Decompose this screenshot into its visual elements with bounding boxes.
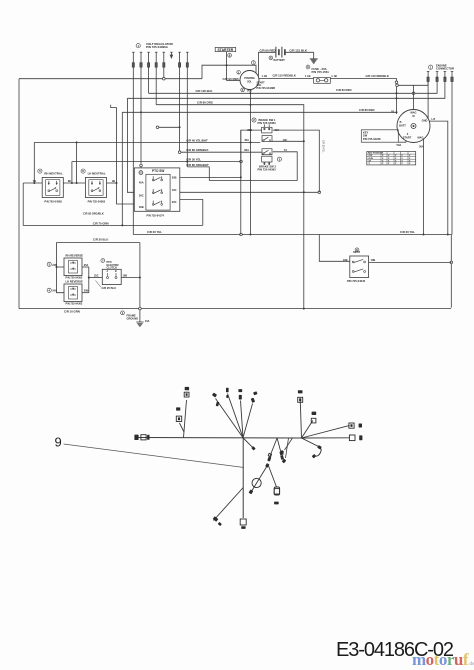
svg-text:STARTER: STARTER [218,48,234,52]
svg-text:C/R 30 YEL: C/R 30 YEL [186,157,201,161]
svg-text:4: 4 [48,288,50,292]
svg-text:24A: 24A [52,290,57,293]
svg-text:RH NEUTRAL: RH NEUTRAL [44,172,63,176]
svg-text:M: M [412,115,414,118]
svg-text:25C: 25C [94,274,99,277]
svg-text:9: 9 [55,435,62,450]
svg-text:5: 5 [39,169,41,173]
svg-text:20C: 20C [172,200,177,204]
svg-text:P/N 725-04363: P/N 725-04363 [258,167,277,171]
svg-text:1: 1 [137,44,139,48]
svg-text:7A: 7A [284,148,287,152]
svg-text:P/N 725-04174: P/N 725-04174 [147,214,165,218]
svg-text:C/R 40 YEL/BHT: C/R 40 YEL/BHT [186,138,208,142]
svg-text:P/N 725-04363: P/N 725-04363 [258,121,277,125]
svg-text:C/R 82 ORG/BLK: C/R 82 ORG/BLK [83,212,104,216]
svg-text:P/N 725-04439B: P/N 725-04439B [257,87,276,90]
svg-text:P/N 725-04096A: P/N 725-04096A [146,45,169,49]
svg-text:GROUND: GROUND [127,316,139,320]
svg-text:10B: 10B [371,258,376,262]
svg-text:40B: 40B [139,205,144,209]
svg-text:C/R 30 YEL: C/R 30 YEL [400,230,415,234]
svg-text:RH REVERSE: RH REVERSE [66,254,84,258]
svg-text:30B: 30B [172,175,177,179]
svg-text:1B: 1B [391,111,394,114]
svg-text:L/F: L/F [432,118,436,121]
svg-text:2: 2 [253,118,255,122]
svg-text:50C: 50C [139,193,144,197]
svg-text:9E: 9E [112,179,115,183]
svg-text:C/R 110 RED/BLK: C/R 110 RED/BLK [366,74,389,78]
svg-text:24B: 24B [52,264,57,267]
svg-text:30B: 30B [247,128,252,132]
svg-text:B: B [115,271,117,273]
svg-text:BATT: BATT [399,123,406,127]
svg-text:3: 3 [48,262,50,266]
svg-text:SOL: SOL [247,81,252,83]
svg-text:MAG: MAG [417,136,423,140]
svg-text:P/N 725-04363: P/N 725-04363 [66,277,83,280]
svg-text:C/R 20 BLU: C/R 20 BLU [93,237,108,241]
svg-text:SEAT: SEAT [353,250,360,254]
svg-text:10A: 10A [145,320,150,323]
svg-text:CONNECTOR: CONNECTOR [436,67,454,71]
svg-text:10C: 10C [172,188,177,192]
svg-text:P/N 725-1561: P/N 725-1561 [312,70,330,74]
svg-text:C/R 30 YEL: C/R 30 YEL [322,140,325,153]
svg-text:25A: 25A [84,264,89,267]
svg-text:10B: 10B [123,274,128,277]
svg-text:C/R 60 RED: C/R 60 RED [336,88,351,92]
svg-text:1 1B: 1 1B [331,74,337,78]
svg-text:50A: 50A [247,89,252,93]
svg-text:C/R 80 ORG/BHT: C/R 80 ORG/BHT [186,163,209,167]
svg-text:MAG: MAG [410,111,416,115]
svg-text:8E: 8E [68,179,71,183]
svg-text:C/R 30 YEL: C/R 30 YEL [147,230,162,234]
svg-text:C/R 60 RED: C/R 60 RED [260,48,276,52]
svg-text:45A: 45A [244,138,249,142]
svg-text:C/R 80 GRN/BLK: C/R 80 GRN/BLK [186,148,208,152]
svg-text:LH REVERSE: LH REVERSE [66,280,83,284]
svg-text:1 1B: 1 1B [305,74,311,78]
svg-text:P/N 725-04363: P/N 725-04363 [44,200,62,204]
svg-text:6: 6 [82,169,84,173]
svg-text:POS/PMG: POS/PMG [244,78,255,80]
svg-text:C/R 10 GRN: C/R 10 GRN [64,310,80,314]
svg-text:C/R 130 BLK: C/R 130 BLK [196,89,213,93]
svg-text:C/R 131 BLK: C/R 131 BLK [289,48,308,52]
svg-text:P/N 725-04363: P/N 725-04363 [66,303,83,306]
svg-text:P/N 725-04040: P/N 725-04040 [347,279,366,283]
svg-text:A: A [107,270,109,273]
svg-text:60A: 60A [244,148,249,152]
svg-text:PTO SW: PTO SW [152,169,164,173]
svg-text:P/N 725-04228: P/N 725-04228 [363,137,381,141]
svg-text:LH NEUTRAL: LH NEUTRAL [88,172,106,176]
svg-text:50A: 50A [397,143,402,147]
svg-text:BATTERY: BATTERY [274,59,286,62]
svg-text:1: 1 [430,65,432,69]
svg-text:C/R 110 RED/BLK: C/R 110 RED/BLK [273,74,296,78]
svg-text:C/R 25 BLU: C/R 25 BLU [102,286,117,290]
svg-text:C/R 70 GRN: C/R 70 GRN [93,221,109,225]
svg-text:C/R 80 ORG: C/R 80 ORG [197,100,214,104]
svg-text:25B: 25B [84,290,89,293]
svg-text:P/N 725-04363: P/N 725-04363 [88,200,106,204]
svg-text:3: 3 [279,157,281,161]
svg-text:C/R 80 RED: C/R 80 RED [359,108,374,112]
svg-text:40A: 40A [139,181,144,185]
svg-text:1 1B: 1 1B [262,74,268,78]
